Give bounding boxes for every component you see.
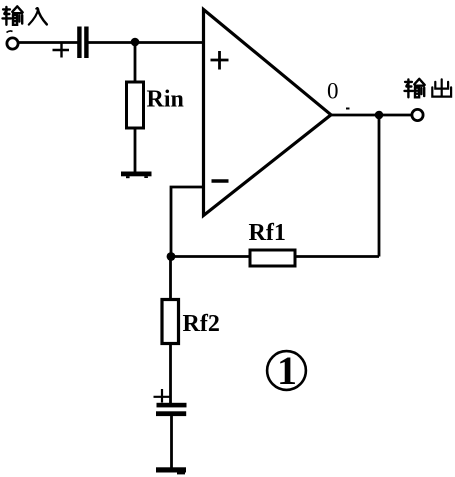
resistor Rf2	[162, 300, 179, 344]
capacitor C2 polarity +	[154, 389, 172, 403]
wire Rf2 to capacitor C2	[169, 343, 172, 403]
wire inverting input	[171, 187, 203, 256]
svg-text:1: 1	[277, 348, 297, 393]
svg-text:Rin: Rin	[147, 87, 184, 113]
op-amp U1	[204, 10, 332, 216]
wire op-amp output	[331, 114, 413, 117]
resistor Rin	[127, 82, 144, 128]
wire C2 to ground	[170, 416, 173, 468]
wire capacitor to op-amp + input	[89, 41, 204, 44]
output terminal	[412, 109, 423, 120]
wire node to Rf2	[169, 257, 172, 301]
node output junction	[375, 111, 384, 120]
node feedback junction	[167, 252, 176, 261]
scan speck near output	[346, 108, 350, 110]
figure number circled 1	[267, 351, 306, 390]
ground (C2)	[156, 467, 186, 474]
svg-text:0: 0	[327, 79, 339, 104]
op-amp - input marker	[212, 179, 229, 182]
capacitor C2	[156, 403, 187, 416]
wire feedback horizontal	[171, 255, 379, 258]
op-amp + input marker	[211, 51, 229, 70]
wire output node down	[378, 115, 381, 257]
node junction input	[131, 38, 140, 47]
scan mark above input terminal	[7, 31, 13, 33]
svg-text:Rf2: Rf2	[183, 311, 220, 337]
label 输出 (output)	[405, 79, 452, 97]
wire input to capacitor	[19, 41, 78, 44]
resistor Rf1	[250, 250, 295, 266]
capacitor C1	[77, 27, 88, 59]
wire Rin to ground	[134, 128, 137, 174]
svg-text:Rf1: Rf1	[249, 220, 286, 246]
capacitor C1 polarity +	[53, 43, 70, 58]
ground (Rin)	[121, 172, 152, 179]
label 输入 (input)	[3, 6, 47, 24]
wire node to Rin	[134, 42, 137, 83]
input terminal	[7, 38, 18, 49]
